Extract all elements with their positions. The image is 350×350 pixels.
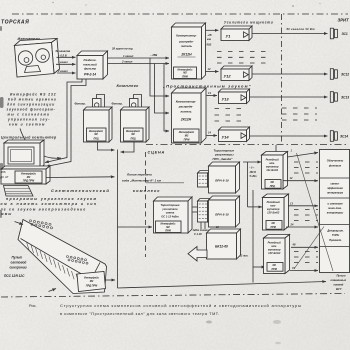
bus branch to thyristor amplifiers xyxy=(118,226,153,228)
monitor screen xyxy=(8,147,34,164)
svg-text:Интерфейс: Интерфейс xyxy=(84,277,100,280)
svg-text:24: 24 xyxy=(290,222,294,226)
svg-text:распреде-: распреде- xyxy=(178,39,194,43)
svg-text:М2: М2 xyxy=(183,72,187,75)
ellipsis dashes right column 2 xyxy=(294,210,318,221)
svg-text:БРН 6-10: БРН 6-10 xyxy=(215,213,229,217)
bus bottom line to VUU xyxy=(118,282,327,289)
svg-text:Код метки времени: Код метки времени xyxy=(8,98,57,102)
svg-text:У14: У14 xyxy=(222,135,230,140)
Manchester-II bus vertical xyxy=(117,150,119,289)
svg-text:света: света xyxy=(166,211,175,214)
block BRN 6-10 no.1 xyxy=(209,162,240,193)
bottom dash-dot page border xyxy=(1,294,345,298)
svg-text:Усилители мощности: Усилители мощности xyxy=(224,21,273,25)
svg-text:Пульт: Пульт xyxy=(337,274,347,278)
right load box (lights) xyxy=(320,150,350,273)
scan specks top xyxy=(52,2,320,7)
terminal strip A xyxy=(198,171,211,188)
cabinet speaker circle 2 xyxy=(36,49,50,63)
svg-text:аппаратура: аппаратура xyxy=(327,192,343,195)
svg-text:БРН 6-10: БРН 6-10 xyxy=(215,179,229,183)
strip B to BK12-60 wires xyxy=(200,222,202,229)
amplifier U13 xyxy=(219,89,250,104)
svg-text:2 канал: 2 канал xyxy=(121,59,133,63)
svg-text:мы с сигналами: мы с сигналами xyxy=(8,113,51,117)
loudspeaker ZS14 xyxy=(330,131,337,142)
auditorium vertical dash-dot border xyxy=(281,14,283,144)
svg-text:1 канал: 1 канал xyxy=(123,54,134,58)
unit interface box xyxy=(15,171,42,183)
amplifier U1 xyxy=(221,26,252,41)
cabinet speaker circle 1 xyxy=(18,51,32,65)
ellipsis dashes right column 1 xyxy=(294,162,318,173)
svg-text:Тиристорные: Тиристорные xyxy=(160,203,180,207)
svg-text:М2: М2 xyxy=(90,280,94,283)
svg-text:СЦЕНА: СЦЕНА xyxy=(148,151,166,155)
leader diagonal B xyxy=(294,227,324,270)
svg-text:ом в память компьютера и син: ом в память компьютера и син xyxy=(1,202,98,206)
svg-text:комплекс: комплекс xyxy=(133,188,161,193)
ellipsis dashes between U1 and U12 xyxy=(217,52,272,64)
keyboard xyxy=(4,186,34,197)
svg-text:мини-теа.: мини-теа. xyxy=(328,207,342,210)
svg-text:литель: литель xyxy=(180,44,193,48)
svg-text:кан: кан xyxy=(207,38,212,41)
stage zone vertical dashed border xyxy=(145,152,147,257)
svg-text:~ 0 ÷: ~ 0 ÷ xyxy=(249,167,255,170)
svg-text:ПРМ: ПРМ xyxy=(184,138,191,142)
commutator1 output wire to U12 xyxy=(206,71,219,73)
wire into RK3 interface xyxy=(253,266,265,268)
RK2 output line 13 xyxy=(288,205,318,207)
RK3 output line 48 xyxy=(291,246,318,248)
ellipsis dashes speaker column xyxy=(282,108,317,120)
wires cabinet to filter xyxy=(57,56,76,58)
filter output bus down to computer xyxy=(45,79,82,163)
svg-text:У1: У1 xyxy=(226,34,232,39)
commutator2 interface box xyxy=(174,129,200,142)
commutator2 output wire to U13 xyxy=(207,95,218,97)
svg-text:Коммутатор-: Коммутатор- xyxy=(176,33,197,37)
svg-text:ПРО „Звезда“: ПРО „Звезда“ xyxy=(213,157,233,161)
svg-text:Пульт: Пульт xyxy=(12,256,23,260)
svg-text:управления зву-: управления зву- xyxy=(7,118,50,122)
svg-text:и световая: и световая xyxy=(327,203,343,206)
svg-text:60 каналов: 60 каналов xyxy=(56,49,71,53)
svg-text:ком и светом: ком и светом xyxy=(9,123,46,127)
svg-text:М2: М2 xyxy=(27,176,31,179)
svg-text:синхронии: синхронии xyxy=(10,266,27,270)
svg-text:Структурная схема комплексов о: Структурная схема комплексов основной св… xyxy=(60,303,302,308)
svg-text:эффектная: эффектная xyxy=(327,186,343,190)
scan artifacts left edge xyxy=(0,26,4,218)
svg-text:ПРМ: ПРМ xyxy=(182,75,188,78)
console lamp circles group 2 xyxy=(67,256,89,265)
svg-text:распреде-: распреде- xyxy=(178,105,194,109)
ellipsis dashes right column 3 xyxy=(294,252,318,263)
wire U13 to ZS13 xyxy=(250,96,328,98)
commutator2 output wire to U14 xyxy=(207,135,218,137)
svg-text:2К12Н: 2К12Н xyxy=(180,118,192,122)
svg-text:ПРД: ПРД xyxy=(131,138,136,141)
svg-text:~ 25В: ~ 25В xyxy=(150,53,157,57)
arrow pointer to console top xyxy=(15,222,24,225)
svg-text:ПРД: ПРД xyxy=(94,138,99,141)
tape deck 2 reel head xyxy=(130,99,139,110)
svg-text:ЗС1: ЗС1 xyxy=(342,32,348,36)
svg-text:ОС 1-12 4кВт: ОС 1-12 4кВт xyxy=(161,215,179,219)
svg-text:Фоногр.: Фоногр. xyxy=(112,102,123,106)
svg-text:Комплекс: Комплекс xyxy=(117,83,140,88)
zone horizontal dash-dot border xyxy=(146,144,348,146)
svg-text:380 В: 380 В xyxy=(250,171,257,174)
wires filter branch down to commutator2 xyxy=(150,58,169,96)
svg-text:М2: М2 xyxy=(166,226,170,229)
wire 12 lines vertical xyxy=(252,190,254,283)
svg-text:12 лин.: 12 лин. xyxy=(240,255,249,258)
svg-text:клавишных: клавишных xyxy=(331,279,347,282)
handwritten note about light programs xyxy=(0,197,98,216)
svg-text:БК12-60: БК12-60 xyxy=(215,245,228,249)
svg-text:С-1-48: С-1-48 xyxy=(194,233,202,236)
loudspeaker ZS13 xyxy=(330,92,337,103)
svg-text:12х ВлН1: 12х ВлН1 xyxy=(266,168,278,172)
svg-text:Облучатели: Облучатели xyxy=(327,159,344,163)
deck2 interface box xyxy=(124,128,144,141)
computer system unit 486 xyxy=(1,166,50,184)
svg-text:Декорацион.: Декорацион. xyxy=(326,229,344,233)
svg-text:кода „Манчестер-II“ 1 км: кода „Манчестер-II“ 1 км xyxy=(122,178,162,182)
svg-text:литель: литель xyxy=(179,110,192,114)
console lamp circles group 1 xyxy=(29,220,52,229)
tape deck 1 xyxy=(84,107,113,142)
svg-text:Прожект.: Прожект. xyxy=(329,238,342,242)
RK2 output line 24 xyxy=(286,226,318,228)
svg-text:Линия передачи: Линия передачи xyxy=(126,173,152,177)
svg-text:Центральный компьютер: Центральный компьютер xyxy=(1,136,57,140)
svg-text:фильтр: фильтр xyxy=(84,67,96,71)
tape deck 1 reel head xyxy=(93,99,102,110)
svg-text:тельный: тельный xyxy=(83,62,97,66)
amplifier U14 xyxy=(219,127,250,142)
loudspeaker ZS1 xyxy=(330,28,337,39)
svg-text:Интерфейс: Интерфейс xyxy=(179,130,195,134)
note leader arrow xyxy=(20,129,61,159)
svg-text:свето-: свето- xyxy=(330,183,339,186)
handwritten note RS-232 xyxy=(7,93,57,127)
svg-text:12V ВлН2: 12V ВлН2 xyxy=(267,210,280,214)
svg-text:Релейный: Релейный xyxy=(267,200,281,204)
block BRN 6-10 no.2 xyxy=(209,196,240,227)
RK1 output line 12 xyxy=(283,180,318,182)
relay commutator RK1 12x VLN1 xyxy=(262,152,288,190)
svg-text:ТОРН: ТОРН xyxy=(332,233,339,237)
svg-text:ммы: ммы xyxy=(1,212,13,216)
svg-text:световой: световой xyxy=(11,261,27,265)
svg-text:ПРМ: ПРМ xyxy=(165,229,171,232)
stub wire above RK1 xyxy=(275,145,277,152)
commutator1 output wire to U1 xyxy=(206,29,219,31)
svg-text:Релейный: Релейный xyxy=(268,240,282,244)
svg-text:~ 0,5 В: ~ 0,5 В xyxy=(58,53,67,57)
svg-text:РФ-2-14: РФ-2-14 xyxy=(84,73,96,77)
svg-text:ПРД ПРМ: ПРД ПРМ xyxy=(23,180,35,183)
wire U14 to ZS14 xyxy=(250,135,328,137)
cabinet port trapezoid xyxy=(25,66,41,73)
commutator-distributor 2 2K12N xyxy=(172,88,207,143)
svg-text:ле со звуком воспроизведение: ле со звуком воспроизведение xyxy=(0,207,86,211)
filter RF-2-14 xyxy=(77,51,108,79)
console interface box xyxy=(77,272,106,292)
svg-text:Рис.: Рис. xyxy=(29,304,37,308)
scan smudges bottom xyxy=(206,320,281,344)
svg-text:фоновые: фоновые xyxy=(329,164,342,168)
leader diagonal A xyxy=(297,153,334,271)
thyristor amplifiers OS-1-12 xyxy=(154,197,193,233)
svg-text:звуковой фонограм-: звуковой фонограм- xyxy=(7,108,56,112)
loudspeaker ZS12 xyxy=(330,69,337,80)
svg-text:ЗС14: ЗС14 xyxy=(340,135,348,139)
svg-text:ЗРИТ: ЗРИТ xyxy=(338,18,349,23)
amplifier U12 xyxy=(221,66,252,81)
arrow pointer to console bottom xyxy=(49,289,57,292)
top dash-dot page border xyxy=(12,13,348,15)
computer to bus wire xyxy=(46,176,115,179)
svg-text:Релейный: Релейный xyxy=(266,157,280,161)
relay commutator RK2 12V VLN2 xyxy=(263,194,289,230)
svg-text:М2: М2 xyxy=(185,133,189,137)
svg-text:Светотехнический: Светотехнический xyxy=(51,188,110,193)
terminal strip B xyxy=(198,199,211,223)
svg-text:12V ВлН3: 12V ВлН3 xyxy=(268,251,281,255)
RK1 output line 1 xyxy=(288,153,319,158)
thyristor to terminal strip wires xyxy=(193,206,198,208)
lighting console slab xyxy=(18,220,107,294)
svg-text:ЗС12: ЗС12 xyxy=(341,73,349,77)
thyristor interface box xyxy=(156,221,182,233)
block BK12-60 xyxy=(207,229,241,259)
console interface wire to bus xyxy=(106,279,116,281)
tape deck 2 xyxy=(121,107,150,142)
svg-text:команд: команд xyxy=(334,282,344,286)
wire filter to commutator1 ch1 xyxy=(108,57,170,59)
svg-text:60 каналов 30 Вт: 60 каналов 30 Вт xyxy=(287,27,316,31)
ellipsis dashes between U13 and U14 xyxy=(215,109,243,122)
wire to relay commutator 2 xyxy=(248,206,263,208)
svg-text:регуляторы: регуляторы xyxy=(214,153,234,157)
svg-text:ДС АТ: ДС АТ xyxy=(0,175,9,179)
console front hatching xyxy=(27,242,88,288)
svg-text:для синхронизации: для синхронизации xyxy=(7,103,55,107)
svg-text:2 канал: 2 канал xyxy=(57,69,68,73)
wire BRN to relay commutator 1 xyxy=(243,161,261,163)
svg-text:в комплексе "Пространственный: в комплексе "Пространственный зал" для з… xyxy=(60,312,220,316)
svg-text:81В: 81В xyxy=(207,43,212,47)
svg-text:Фоногр.: Фоногр. xyxy=(75,102,86,106)
commutator-distributor 1 2K12N xyxy=(172,23,206,79)
svg-text:~2В: ~2В xyxy=(207,34,212,37)
wire vertical 380V bus xyxy=(247,162,249,207)
deck1 output wire to bus xyxy=(98,142,115,150)
svg-text:28 групп по-тр.: 28 групп по-тр. xyxy=(111,47,133,51)
svg-text:ПРД ПРМ: ПРД ПРМ xyxy=(86,285,98,288)
deck2 output wire to bus xyxy=(121,142,135,152)
wire U1 to ZS1 xyxy=(252,33,328,35)
tape deck 1 tape wire xyxy=(97,95,105,110)
svg-text:48: 48 xyxy=(292,243,296,247)
RK3 output line 72 xyxy=(290,270,318,272)
wire U12 to ZS12 xyxy=(252,73,328,75)
svg-text:ПРД: ПРД xyxy=(270,185,275,188)
speaker cabinet (izluchateli box) xyxy=(15,39,60,78)
svg-text:усилители: усилители xyxy=(161,208,177,211)
svg-text:ЗС13: ЗС13 xyxy=(341,96,349,100)
svg-text:5 кВт: 5 кВт xyxy=(250,175,258,178)
computer monitor xyxy=(4,140,44,168)
deck1 interface box xyxy=(87,128,107,141)
hollow arrow output S-1-48 xyxy=(188,247,207,262)
commutator1 interface box xyxy=(174,67,197,79)
svg-text:486: 486 xyxy=(1,170,6,174)
relay commutator RK3 12V VLN3 xyxy=(264,235,290,274)
svg-text:2К12Н: 2К12Н xyxy=(180,52,192,56)
svg-text:аппаратуры: аппаратуры xyxy=(327,212,344,215)
svg-text:Коммутатор-: Коммутатор- xyxy=(176,100,197,104)
svg-text:„Пространственным звуком“: „Пространственным звуком“ xyxy=(162,84,252,89)
svg-text:программы управления звуком: программы управления звуком xyxy=(6,197,97,201)
svg-text:ТОРСКАЯ: ТОРСКАЯ xyxy=(1,20,29,26)
load box dividers xyxy=(320,177,350,179)
svg-text:ПСС 12Я 12С: ПСС 12Я 12С xyxy=(4,274,25,278)
svg-text:Интерфейс RS 232: Интерфейс RS 232 xyxy=(10,93,57,97)
wire filter to commutator1 ch2 xyxy=(108,63,170,65)
svg-text:У13: У13 xyxy=(222,97,230,102)
svg-text:ВУУ: ВУУ xyxy=(336,287,342,291)
svg-text:1 канал: 1 канал xyxy=(58,60,68,64)
svg-text:У12: У12 xyxy=(224,74,232,79)
tape deck 2 tape wire xyxy=(134,95,142,110)
